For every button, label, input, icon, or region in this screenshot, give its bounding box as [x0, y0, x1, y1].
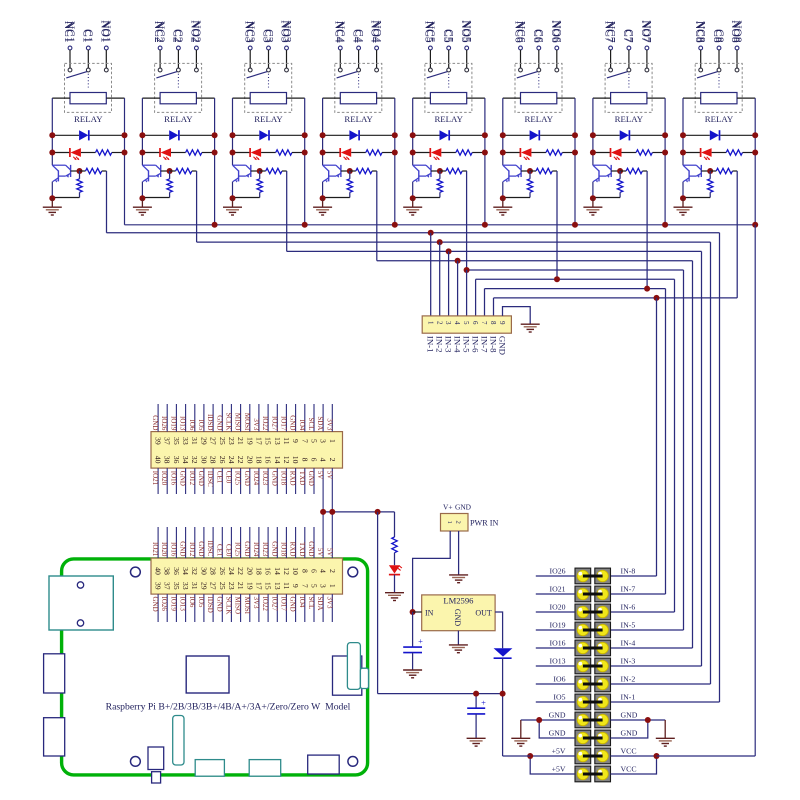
P1 row 3 left stub [536, 611, 575, 613]
relay channel 8 [674, 20, 759, 225]
wire coil left [142, 97, 160, 99]
svg-text:10: 10 [291, 567, 300, 575]
ground CN1 [521, 323, 540, 325]
svg-text:20: 20 [245, 567, 254, 575]
P1 row 7 left stub [536, 683, 575, 685]
J1 pin 3 stub and label SDA [322, 404, 324, 432]
svg-text:GND: GND [197, 541, 205, 556]
transistor Q1 emitter wire [51, 182, 53, 199]
wire left rail [682, 98, 684, 165]
svg-text:IO25: IO25 [234, 542, 242, 557]
ground channel 7 [592, 198, 594, 207]
svg-text:29: 29 [199, 437, 208, 445]
svg-text:C6: C6 [533, 29, 545, 43]
J2 pin 2 stub and label 5V [331, 512, 333, 558]
wire coil left [323, 97, 341, 99]
svg-text:5: 5 [310, 439, 319, 443]
base junction [437, 168, 443, 174]
svg-text:39: 39 [154, 437, 163, 445]
ground C2 [467, 737, 486, 739]
svg-text:CE0: CE0 [224, 471, 232, 484]
J1 pin 28 stub and label IDSC [212, 468, 214, 494]
P1 row 12 shunt bar [583, 773, 603, 776]
wire coil left [683, 97, 701, 99]
junction 5V pin4 [320, 509, 326, 515]
J1 pin 6 stub and label GND [313, 468, 315, 494]
svg-text:1: 1 [328, 584, 337, 588]
svg-text:TXD: TXD [298, 542, 306, 556]
svg-text:35: 35 [172, 582, 181, 590]
P1 row 4 right pin [597, 624, 608, 635]
svg-text:30: 30 [199, 567, 208, 575]
J2 pin 10 stub and label RXD [295, 527, 297, 558]
junction IN-1 / connector pin 1 [428, 230, 434, 236]
transistor Q7 emitter wire [592, 182, 594, 199]
svg-text:20: 20 [245, 456, 254, 464]
LED series resistor R2a [186, 150, 202, 155]
pull-down resistor R3c [259, 171, 261, 179]
svg-text:4: 4 [319, 458, 328, 462]
J1 pin 18 stub and label IO24 [258, 468, 260, 494]
relay K1 dashed body [65, 63, 112, 112]
svg-text:RELAY: RELAY [344, 114, 373, 124]
base resistor R2b [170, 170, 176, 172]
P1 row 1 left pin [577, 570, 588, 581]
wire coil left [413, 97, 431, 99]
J1 pin 16 stub and label IO23 [267, 468, 269, 494]
SoC chip [186, 656, 229, 693]
indicator LED5 (red, cathode left) [429, 148, 431, 157]
svg-text:17: 17 [254, 582, 263, 590]
wire coil right [647, 97, 665, 99]
P1 row 7 right pin [597, 678, 608, 689]
svg-text:NO2: NO2 [190, 20, 202, 43]
svg-text:32: 32 [190, 567, 199, 575]
J1 pin 32 stub and label IO12 [194, 468, 196, 494]
J2 pin 7 stub and label IO4 [304, 594, 306, 622]
J2 pin 19 stub and label MOSI [249, 594, 251, 622]
J2 pin 6 stub and label GND [313, 527, 315, 558]
svg-text:16: 16 [264, 567, 273, 575]
svg-text:15: 15 [264, 437, 273, 445]
junction LM2596 IN [410, 609, 416, 615]
J1 pin 10 stub and label RXD [295, 468, 297, 494]
svg-text:TXD: TXD [298, 471, 306, 485]
junction GND left [536, 717, 542, 723]
svg-text:IO4: IO4 [298, 597, 306, 608]
relay K8 coil [701, 93, 737, 104]
J2 pin 27 stub and label IDSD [212, 594, 214, 622]
svg-text:RELAY: RELAY [164, 114, 193, 124]
J2 pin 29 stub and label IO5 [203, 594, 205, 622]
junction diode-left [680, 132, 686, 138]
wire P1 GND right side [611, 719, 666, 721]
relay K4 dashed body [335, 63, 382, 112]
base resistor R4b [350, 170, 356, 172]
base junction [707, 168, 713, 174]
P1 row 7 shunt bar [583, 683, 603, 686]
camera connector [173, 716, 184, 766]
svg-text:11: 11 [282, 582, 291, 590]
J1 pin 34 stub and label GND [185, 468, 187, 494]
relay K1 linkage dotted line [87, 74, 89, 88]
svg-text:2: 2 [328, 569, 337, 573]
svg-text:SCLK: SCLK [224, 412, 232, 430]
svg-text:IO23: IO23 [261, 542, 269, 557]
net IN-5 control wire from channel 5 [466, 171, 468, 270]
USB connector upper [44, 654, 65, 693]
wire right rail [484, 98, 486, 225]
flyback diode D2 [169, 130, 178, 140]
svg-text:GND: GND [453, 609, 462, 627]
relay K1 coil [70, 93, 106, 104]
svg-text:GND: GND [179, 541, 187, 556]
svg-text:SCL: SCL [307, 418, 315, 431]
junction VCC bus / channel 4 rail [392, 222, 398, 228]
relay K6 linkage dotted line [538, 74, 540, 88]
svg-text:37: 37 [163, 437, 172, 445]
wire IN-3 into header [611, 665, 702, 667]
svg-text:8: 8 [300, 458, 309, 462]
USB-C power connector [308, 755, 340, 774]
relay K2 switch arm [156, 72, 177, 78]
wire U1 GND [457, 631, 459, 645]
indicator LED8 row wire [683, 152, 701, 154]
svg-text:C2: C2 [172, 29, 184, 43]
wire left rail [141, 98, 143, 165]
wire VCC feed [657, 755, 756, 757]
wire right rail [304, 98, 306, 225]
net IN-7 control wire from channel 7 [646, 171, 648, 289]
svg-text:VCC: VCC [621, 746, 637, 755]
svg-text:26: 26 [218, 567, 227, 575]
P1 row 2 shunt bar [583, 593, 603, 596]
svg-text:27: 27 [209, 437, 218, 445]
indicator LED2 row wire [142, 152, 160, 154]
svg-text:RELAY: RELAY [525, 114, 554, 124]
mount hole bottom-right [348, 757, 358, 767]
transistor Q2 base lead [161, 170, 170, 172]
svg-text:14: 14 [273, 456, 282, 464]
flyback diode D6 [530, 130, 539, 140]
wire IN-4 into header [611, 647, 693, 649]
relay K4 coil [340, 93, 376, 104]
svg-text:5V: 5V [325, 548, 333, 557]
net IN-4 control wire from channel 4 [376, 171, 378, 261]
wire coil left [503, 97, 521, 99]
wire right rail [754, 98, 756, 225]
svg-text:IDSC: IDSC [206, 540, 214, 556]
J2 pin 31 stub and label IO6 [194, 594, 196, 622]
junction IN-2 / connector pin 2 [437, 239, 443, 245]
transistor Q3 base lead [251, 170, 260, 172]
svg-text:GND: GND [307, 541, 315, 556]
J1 pin 12 stub and label IO18 [285, 468, 287, 494]
junction led-left [49, 150, 55, 156]
svg-text:9: 9 [498, 321, 506, 325]
P1 row 1 shunt bar [583, 575, 603, 578]
wire coil right [737, 97, 755, 99]
svg-text:16: 16 [264, 456, 273, 464]
wire coil left [52, 97, 70, 99]
junction VCC bus / channel 3 rail [302, 222, 308, 228]
relay K7 coil [611, 93, 647, 104]
svg-text:29: 29 [199, 582, 208, 590]
wire pulldown to ground [413, 197, 440, 199]
P1 row 8 right pin pad [595, 694, 611, 710]
J1 pin 13 stub and label IO27 [276, 404, 278, 432]
P1 row 6 left pin pad [575, 658, 591, 674]
svg-text:+: + [418, 636, 423, 646]
flyback diode D5 row wire [413, 134, 440, 136]
svg-text:GND: GND [197, 471, 205, 486]
HDMI connector 2 [249, 760, 281, 777]
svg-text:IO24: IO24 [252, 542, 260, 557]
svg-text:+5V: +5V [552, 746, 566, 755]
wire IN-7 down to header [665, 289, 667, 594]
capacitor C2 (output, polarized) [475, 694, 477, 709]
ground C1 [403, 669, 422, 671]
svg-text:GND: GND [289, 415, 297, 430]
svg-text:12: 12 [282, 567, 291, 575]
junction diode-left [590, 132, 596, 138]
wire coil right [377, 97, 395, 99]
svg-text:2: 2 [435, 321, 443, 325]
J1 pin 38 stub and label IO20 [166, 468, 168, 494]
junction diode-right [122, 132, 128, 138]
P1 row 2 left stub [536, 593, 575, 595]
wire left rail [51, 98, 53, 165]
flyback diode D4 row wire [323, 134, 350, 136]
wire IN-3 to connector pin 3 [448, 251, 450, 316]
P1 row 8 right pin [597, 696, 608, 707]
svg-text:17: 17 [254, 437, 263, 445]
darlington transistor Q1 [52, 164, 65, 166]
svg-text:28: 28 [209, 456, 218, 464]
junction diode-right [662, 132, 668, 138]
J2 pin 22 stub and label IO25 [240, 527, 242, 558]
SD card slot [347, 643, 360, 690]
J1 pin 2 stub and label 5V [331, 468, 333, 512]
junction led-right [482, 150, 488, 156]
svg-text:NO5: NO5 [461, 20, 473, 43]
transistor Q4 base lead [341, 170, 350, 172]
P1 row 12 right pin [597, 768, 608, 779]
relay K1 switch arm [66, 72, 87, 78]
svg-text:GND: GND [151, 415, 159, 430]
J2 pin 26 stub and label CE1 [221, 527, 223, 558]
P1 row 1 right pin pad [595, 568, 611, 584]
relay K8 dashed body [695, 63, 742, 112]
power LED (red) [389, 565, 400, 573]
wire 5V to +5V pins [503, 755, 531, 757]
P1 row 3 left pin pad [575, 604, 591, 620]
svg-text:RELAY: RELAY [615, 114, 644, 124]
junction led-left [139, 150, 145, 156]
J1 pin 8 stub and label TXD [304, 468, 306, 494]
ground P1 right [664, 720, 666, 738]
J1 pin 4 stub and label 5V [322, 468, 324, 512]
svg-text:4: 4 [319, 569, 328, 573]
net IN-8 control wire from channel 8 [736, 171, 738, 298]
junction led-right [572, 150, 578, 156]
svg-text:C7: C7 [623, 29, 635, 43]
P1 row 10 left pin pad [575, 730, 591, 746]
pull-down resistor R7c [619, 171, 621, 179]
svg-text:IO21: IO21 [151, 471, 159, 486]
net IN-3 control wire from channel 3 [286, 171, 288, 251]
indicator LED1 row wire [52, 152, 70, 154]
svg-text:GND: GND [215, 597, 223, 612]
svg-text:GND: GND [289, 597, 297, 612]
junction 5V branch [375, 509, 381, 515]
J2 pin 16 stub and label IO23 [267, 527, 269, 558]
wire IN-1 down to header [719, 233, 721, 702]
svg-text:34: 34 [181, 456, 190, 464]
pull-down resistor R2c [169, 171, 171, 179]
indicator LED3 row wire [233, 152, 251, 154]
svg-text:IN-7: IN-7 [621, 584, 636, 593]
svg-text:30: 30 [199, 456, 208, 464]
wire IN [413, 611, 422, 613]
svg-text:NO8: NO8 [731, 20, 743, 43]
svg-text:1: 1 [328, 439, 337, 443]
J2 pin 20 stub and label GND [249, 527, 251, 558]
ground channel 5 [412, 198, 414, 207]
svg-text:IO17: IO17 [279, 597, 287, 612]
svg-text:5: 5 [462, 321, 470, 325]
darlington transistor Q2 [142, 164, 155, 166]
svg-text:IO26: IO26 [549, 566, 565, 575]
P1 row 3 shunt bar [583, 611, 603, 614]
J1 pin 1 stub and label 3V3 [331, 404, 333, 432]
pull-down resistor R8c [709, 171, 711, 179]
P1 row 1 left stub [536, 575, 575, 577]
svg-text:31: 31 [190, 437, 199, 445]
relay K2 dashed body [155, 63, 202, 112]
terminal pins NC6/C6/NO6 [519, 46, 523, 50]
svg-text:NO1: NO1 [100, 20, 112, 43]
svg-text:CE1: CE1 [215, 471, 223, 484]
P1 row 4 left stub [536, 629, 575, 631]
J2 pin 28 stub and label IDSC [212, 527, 214, 558]
LED series resistor R4a [366, 150, 382, 155]
base resistor R6b [530, 170, 536, 172]
VCC bus (relay supply) [125, 224, 756, 226]
J2 pin 32 stub and label IO12 [194, 527, 196, 558]
svg-text:GND: GND [270, 541, 278, 556]
LED series resistor R3a [276, 150, 292, 155]
terminal pins NC2/C2/NO2 [158, 46, 162, 50]
svg-text:3V3: 3V3 [252, 597, 260, 610]
wire coil left [233, 97, 251, 99]
svg-text:IDSD: IDSD [206, 597, 214, 613]
wire IN-2 to connector pin 2 [439, 242, 441, 316]
wire 5V down to output node [377, 512, 379, 694]
svg-text:SDA: SDA [316, 416, 324, 430]
P1 row 2 right pin [597, 588, 608, 599]
svg-text:NC5: NC5 [424, 21, 436, 43]
svg-text:IO13: IO13 [179, 416, 187, 431]
LED series resistor R5a [456, 150, 472, 155]
svg-text:GND: GND [179, 471, 187, 486]
relay K3 dashed body [245, 63, 292, 112]
wire IN-5 into header [611, 629, 684, 631]
J2 pin 3 stub and label SDA [322, 594, 324, 622]
PWR IN pin2 GND wire [458, 531, 460, 575]
svg-text:IN-3: IN-3 [621, 656, 636, 665]
wire pulldown to ground [593, 197, 620, 199]
J2 pin 40 stub and label IO21 [157, 527, 159, 558]
wire right rail [214, 98, 216, 225]
svg-text:IO6: IO6 [553, 674, 565, 683]
P1 row 5 left pin pad [575, 640, 591, 656]
svg-text:IO12: IO12 [188, 542, 196, 557]
flyback diode D5 [440, 130, 449, 140]
J1 pin 15 stub and label IO22 [267, 404, 269, 432]
svg-text:38: 38 [163, 567, 172, 575]
svg-text:9: 9 [291, 439, 300, 443]
P1 row 6 right pin pad [595, 658, 611, 674]
transistor Q4 emitter wire [322, 182, 324, 199]
darlington transistor Q6 [503, 164, 516, 166]
terminal pins NC7/C7/NO7 [609, 46, 613, 50]
svg-text:IO22: IO22 [261, 597, 269, 612]
svg-text:VCC: VCC [621, 764, 637, 773]
svg-text:6: 6 [310, 569, 319, 573]
P1 row 5 right pin [597, 642, 608, 653]
svg-text:IO12: IO12 [188, 471, 196, 486]
svg-text:V+: V+ [443, 502, 453, 511]
junction IN-3 / connector pin 3 [446, 248, 452, 254]
wire D9 to 5V node [502, 658, 504, 756]
svg-text:3V3: 3V3 [252, 418, 260, 431]
svg-text:C3: C3 [262, 29, 274, 43]
junction IN-8 bus / header branch [654, 295, 660, 301]
svg-text:6: 6 [310, 458, 319, 462]
svg-text:12: 12 [282, 456, 291, 464]
wire IN-5 down to header [683, 270, 685, 630]
base resistor R7b [620, 170, 626, 172]
svg-text:IO18: IO18 [279, 471, 287, 486]
relay channel 4 [313, 20, 398, 225]
wire coil right [557, 97, 575, 99]
P1 row 4 shunt bar [583, 629, 603, 632]
mount hole top-right [348, 567, 358, 577]
svg-text:NC6: NC6 [514, 21, 526, 43]
junction diode-right [572, 132, 578, 138]
svg-text:NO6: NO6 [551, 20, 563, 43]
P1 row 12 left pin pad [575, 766, 591, 782]
wire IN-1 into header [611, 701, 720, 703]
P1 row 8 left stub [536, 701, 575, 703]
terminal pins NC1/C1/NO1 [68, 46, 72, 50]
GPIO header J1 (relay board side) [151, 432, 343, 469]
terminal pins NC4/C4/NO4 [338, 46, 342, 50]
P1 row 1 left pin pad [575, 568, 591, 584]
svg-text:25: 25 [218, 437, 227, 445]
svg-text:4: 4 [453, 321, 461, 325]
svg-text:IN-1: IN-1 [621, 692, 636, 701]
J2 pin 35 stub and label IO19 [175, 594, 177, 622]
svg-text:IO23: IO23 [261, 471, 269, 486]
svg-text:+: + [481, 697, 486, 707]
J1 pin 14 stub and label GND [276, 468, 278, 494]
svg-text:IN: IN [425, 608, 434, 617]
svg-text:1: 1 [426, 321, 434, 325]
svg-text:19: 19 [245, 582, 254, 590]
P1 row 10 left pin [577, 732, 588, 743]
